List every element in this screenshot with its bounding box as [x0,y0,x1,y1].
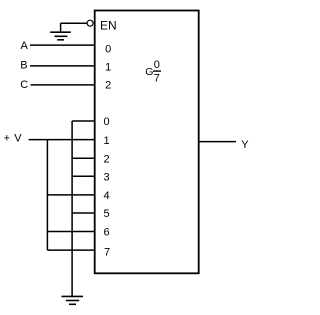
svg-text:G: G [145,66,153,78]
svg-text:0: 0 [105,43,111,55]
svg-text:7: 7 [104,246,110,258]
svg-text:3: 3 [103,172,109,184]
svg-text:7: 7 [154,72,160,84]
svg-text:1: 1 [103,135,109,147]
svg-text:+: + [4,133,10,145]
svg-text:0: 0 [103,116,109,128]
svg-text:0: 0 [154,59,160,71]
svg-text:5: 5 [103,208,109,220]
svg-text:2: 2 [103,153,109,165]
svg-text:1: 1 [105,62,111,74]
svg-text:B: B [20,59,27,71]
svg-text:Y: Y [241,139,249,151]
svg-text:C: C [20,79,28,91]
svg-text:4: 4 [103,190,109,202]
svg-text:A: A [21,40,29,52]
svg-text:2: 2 [105,79,111,91]
svg-text:EN: EN [100,19,117,33]
svg-text:6: 6 [103,227,109,239]
svg-text:V: V [14,133,22,145]
